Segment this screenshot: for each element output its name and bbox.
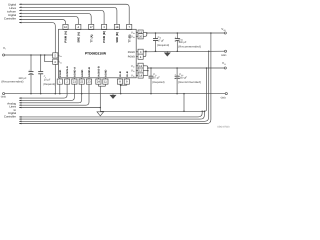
svg-text:(Recommended): (Recommended) — [178, 80, 201, 84]
pin 19 (VIN) right — [131, 30, 143, 35]
node GND left terminal — [1, 93, 7, 99]
wire digital line 6 — [19, 19, 65, 25]
svg-text:23: 23 — [88, 81, 91, 84]
pin 17 (TT (A)) — [89, 24, 94, 42]
capacitor CO 47uF — [149, 68, 165, 94]
pin 24 (VoSNS-B) bottom — [96, 66, 101, 84]
capacitor CIN2 330uF — [175, 33, 201, 52]
svg-text:AGND-A: AGND-A — [74, 67, 77, 77]
wire pins Vo-B tie to GND — [120, 84, 127, 93]
node GND input terminal — [221, 50, 227, 57]
wire pin 6 stub to GND rail — [55, 64, 57, 94]
wire digital line 3 — [19, 10, 104, 25]
svg-text:AGND: AGND — [105, 69, 108, 77]
wire pin 1 to GND rail — [59, 84, 61, 93]
svg-text:TT (A): TT (A) — [89, 34, 93, 42]
pin 16 (PWM (A)) — [63, 24, 68, 42]
wire sense line 4 — [19, 32, 211, 124]
digital controller label — [4, 2, 17, 20]
svg-text:24: 24 — [97, 81, 100, 84]
wire VIN rail — [143, 32, 224, 36]
svg-text:Controller: Controller — [4, 16, 16, 20]
svg-text:Vo-B: Vo-B — [119, 71, 122, 77]
svg-text:PGND: PGND — [59, 70, 62, 77]
wire analog line 3 — [19, 84, 81, 103]
svg-text:13: 13 — [139, 70, 142, 73]
svg-text:(Recommended): (Recommended) — [178, 45, 201, 49]
pin 3 (PGND) right — [128, 49, 143, 54]
svg-text:PTD08D210W: PTD08D210W — [85, 51, 107, 55]
wire GND rail — [5, 93, 226, 95]
wire AGND pins tie — [98, 84, 105, 111]
svg-text:(Required): (Required) — [157, 44, 169, 47]
svg-text:18: 18 — [115, 26, 118, 29]
svg-text:21: 21 — [73, 81, 76, 84]
svg-text:AGND-B: AGND-B — [88, 67, 91, 77]
module U1 PTD08D210W body — [59, 29, 137, 78]
capacitor CIN 47uF — [153, 33, 169, 52]
pin 5 (VIN) left — [53, 53, 63, 58]
pin 14 (VO) right — [131, 73, 143, 78]
svg-text:Controller: Controller — [4, 115, 16, 119]
svg-text:22: 22 — [80, 81, 83, 84]
analog controller label — [4, 102, 17, 119]
pin 8 (Vo-B) bottom — [117, 71, 122, 84]
svg-text:PWM (B): PWM (B) — [102, 31, 106, 43]
svg-text:GND: GND — [221, 54, 227, 57]
wire VI to pin 6 — [45, 55, 53, 62]
wire analog line 2 — [19, 84, 74, 101]
svg-text:20: 20 — [139, 35, 142, 38]
wire sense line 3 — [19, 50, 209, 122]
pin 2 (VoSNS-A) bottom — [65, 66, 70, 84]
wire AGND tie line — [100, 67, 207, 112]
wire VI rail — [5, 54, 53, 56]
pin 3 (PWM (B)) — [102, 24, 107, 42]
svg-text:GND: GND — [221, 96, 227, 99]
pin 21 (AGND-A) bottom — [72, 67, 77, 84]
svg-text:Vo-B: Vo-B — [126, 71, 129, 77]
svg-text:12: 12 — [139, 65, 142, 68]
svg-text:SRE (A): SRE (A) — [76, 32, 80, 42]
pin 12 (VO) right — [131, 63, 143, 68]
svg-text:PWM (A): PWM (A) — [64, 31, 68, 43]
pin 9 (Vo-B) bottom — [124, 71, 129, 84]
wire digital line 5 — [19, 16, 78, 25]
pin 1 (PGND) bottom — [57, 70, 62, 85]
svg-text:AGND: AGND — [81, 69, 84, 77]
wire digital line 4 — [19, 13, 91, 25]
svg-text:47 µF: 47 µF — [158, 39, 165, 42]
svg-text:PGND: PGND — [128, 51, 135, 54]
svg-text:16: 16 — [64, 26, 67, 29]
pin 22 (AGND) bottom — [79, 69, 84, 84]
svg-text:SRE (B): SRE (B) — [115, 32, 119, 42]
wire digital line 7 — [19, 22, 55, 53]
document number — [217, 125, 230, 128]
svg-text:VoSNS-B: VoSNS-B — [98, 66, 101, 77]
svg-text:330 µF: 330 µF — [179, 41, 187, 44]
node VIN terminal — [221, 27, 226, 34]
pin 4 (PGND) right — [128, 54, 143, 59]
capacitor C2 330uF — [1, 55, 33, 94]
svg-text:10 µF: 10 µF — [44, 79, 51, 82]
svg-text:17: 17 — [90, 26, 93, 29]
svg-text:47 µF: 47 µF — [153, 76, 160, 79]
pin 7 (TT (B)) — [127, 24, 132, 42]
wire analog line 1 — [19, 84, 67, 99]
ground power mid — [110, 94, 117, 99]
svg-text:VoSNS-A: VoSNS-A — [66, 66, 69, 77]
wire analog line 5 (AGND) — [19, 107, 101, 109]
pin 23 (AGND-B) bottom — [86, 67, 91, 84]
wire sense line 1 — [19, 111, 202, 117]
ground analog — [97, 112, 104, 116]
svg-text:(Required): (Required) — [152, 81, 164, 84]
capacitor CO2 330uF — [174, 68, 201, 94]
wire VO rail — [143, 66, 224, 76]
node VO terminal — [222, 61, 226, 69]
pin 18 (SRE (B)) — [114, 24, 119, 42]
wire analog line 4 — [19, 84, 89, 106]
wire digital line 2 — [19, 7, 117, 25]
svg-text:(Required): (Required) — [43, 83, 55, 86]
svg-text:14: 14 — [139, 75, 142, 78]
svg-text:PGND: PGND — [128, 56, 135, 59]
ground power input — [164, 51, 171, 56]
svg-text:(Recommended): (Recommended) — [1, 80, 23, 84]
pin 4 (SRE (A)) — [76, 24, 81, 42]
wire digital line 1 — [19, 3, 129, 24]
svg-text:GND: GND — [1, 96, 7, 99]
svg-text:UDG-07113: UDG-07113 — [217, 125, 230, 128]
pin 20 (VIN) right — [131, 34, 143, 39]
capacitor C1 10uF — [38, 55, 55, 94]
svg-text:11: 11 — [104, 81, 107, 84]
node VI input terminal — [3, 46, 7, 56]
pin 13 (VO) right — [131, 68, 143, 73]
node GND right terminal — [221, 93, 228, 100]
wire sense line 2 — [19, 111, 204, 120]
pin 6 (VIN) left — [53, 59, 63, 64]
wire PGND line — [143, 50, 224, 56]
pin 11 (AGND) bottom — [103, 69, 108, 84]
wire GND rail to AGND tie — [183, 93, 185, 112]
